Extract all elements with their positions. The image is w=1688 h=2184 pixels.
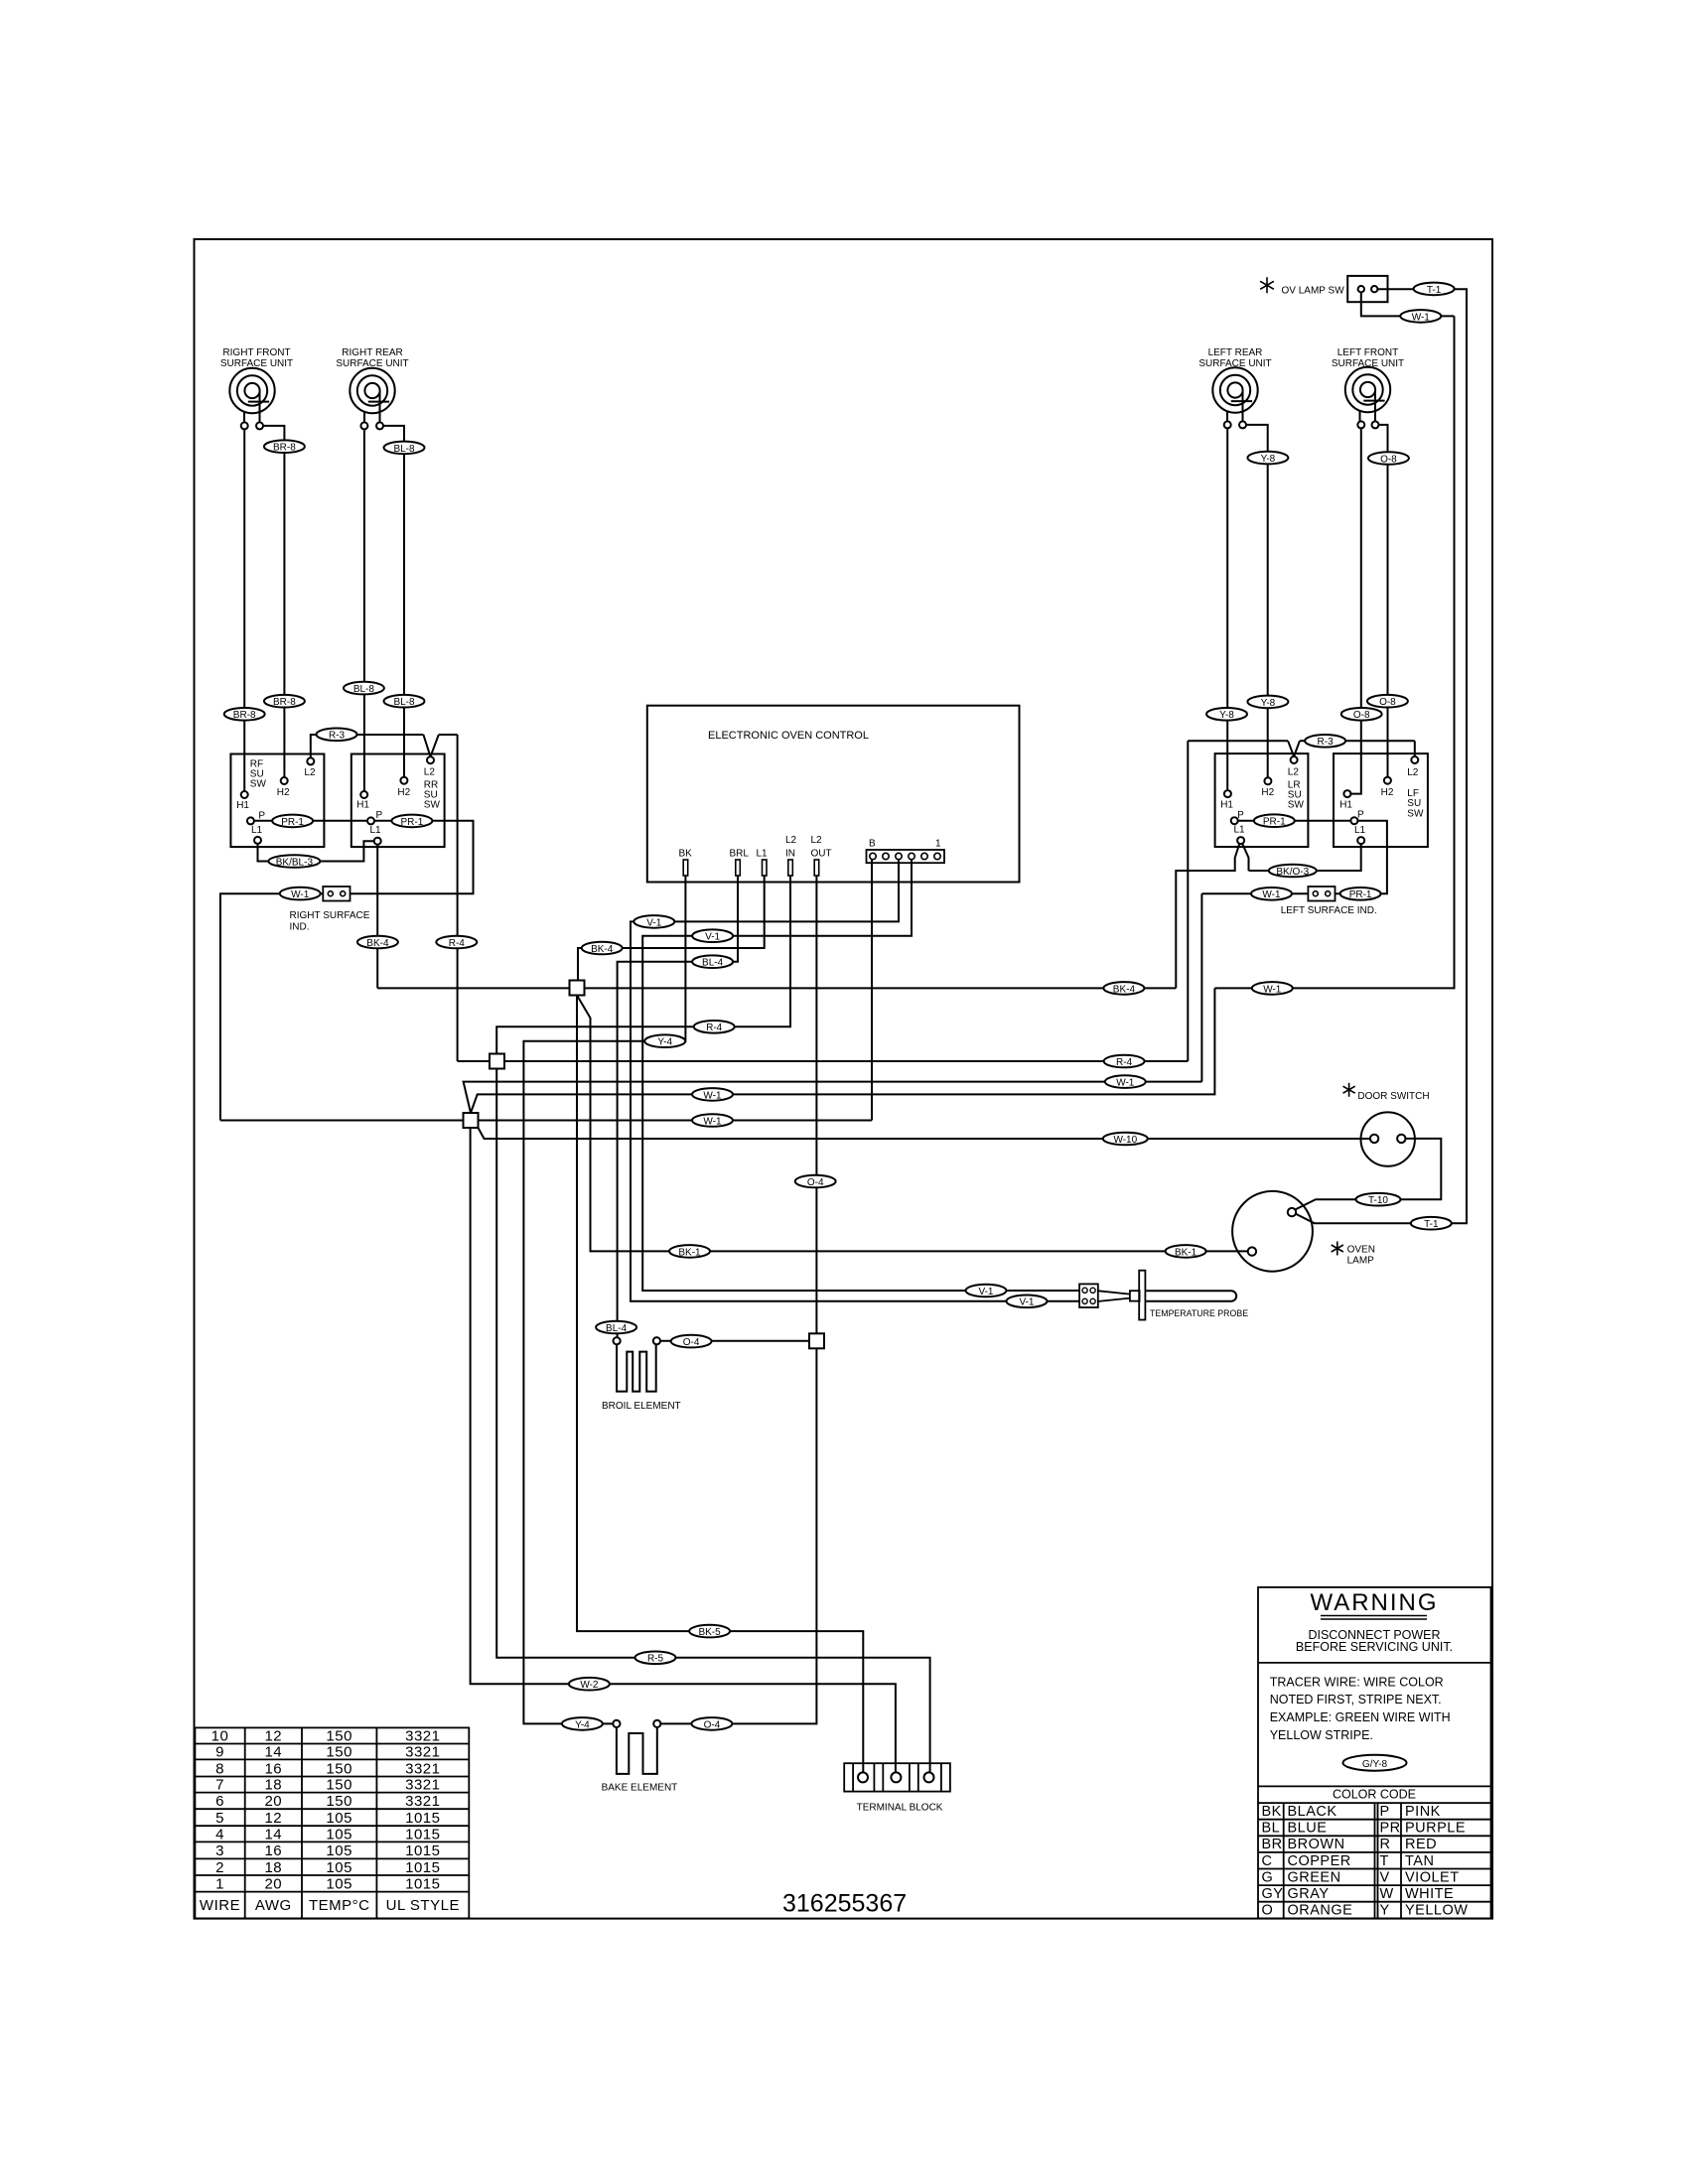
svg-text:H2: H2 xyxy=(1261,787,1274,798)
label BK-4 on RR L1 drop xyxy=(357,936,398,949)
svg-text:SURFACE UNIT: SURFACE UNIT xyxy=(1198,358,1271,369)
svg-text:20: 20 xyxy=(264,1876,282,1893)
svg-text:H1: H1 xyxy=(1339,800,1352,811)
terminal RR H2 xyxy=(400,777,407,784)
wire BK-5 to terminal block xyxy=(577,996,863,1773)
svg-text:COLOR CODE: COLOR CODE xyxy=(1333,1788,1416,1802)
label O-8 on LF H2 lower xyxy=(1367,695,1408,708)
svg-text:L2: L2 xyxy=(811,835,823,846)
svg-text:W-1: W-1 xyxy=(1116,1078,1135,1089)
svg-text:3321: 3321 xyxy=(405,1728,440,1745)
svg-text:T-1: T-1 xyxy=(1424,1219,1439,1230)
label V-1 lower xyxy=(692,929,733,942)
terminal RF P xyxy=(247,817,254,824)
svg-text:H1: H1 xyxy=(1220,800,1233,811)
label W-1 left indicator xyxy=(1251,887,1292,900)
svg-text:WHITE: WHITE xyxy=(1405,1886,1454,1902)
wire LF H1 drop with jog xyxy=(1350,428,1360,793)
svg-text:8: 8 xyxy=(215,1761,224,1778)
svg-text:W-10: W-10 xyxy=(1113,1135,1137,1146)
junction square 3 xyxy=(464,1113,479,1128)
svg-text:BL-8: BL-8 xyxy=(393,444,415,455)
terminal RR L1 xyxy=(374,838,381,845)
svg-text:V: V xyxy=(1380,1869,1390,1885)
label R-3 right xyxy=(1305,735,1345,748)
svg-text:P: P xyxy=(1380,1804,1390,1820)
label W-1 left ind row xyxy=(1105,1075,1146,1088)
label PR-1 in RF box xyxy=(272,815,313,828)
label BR-8 on RF H2 xyxy=(264,440,305,453)
svg-text:OUT: OUT xyxy=(811,849,832,860)
svg-text:TRACER WIRE: WIRE COLOR: TRACER WIRE: WIRE COLOR xyxy=(1270,1676,1444,1690)
terminal LF P xyxy=(1350,817,1357,824)
svg-text:BL-4: BL-4 xyxy=(606,1323,628,1334)
label W-1 long wire xyxy=(1252,982,1293,995)
svg-text:BL: BL xyxy=(1262,1821,1281,1837)
svg-text:NOTED FIRST, STRIPE NEXT.: NOTED FIRST, STRIPE NEXT. xyxy=(1270,1693,1442,1706)
svg-text:BK-1: BK-1 xyxy=(678,1247,701,1258)
svg-text:PINK: PINK xyxy=(1405,1804,1441,1820)
svg-text:BL-8: BL-8 xyxy=(393,697,415,708)
label O-4 on L2 OUT drop xyxy=(795,1175,836,1188)
probe block circles xyxy=(1082,1288,1095,1303)
terminal LR right xyxy=(1239,421,1246,428)
wire BRL pin BL-4 xyxy=(618,876,738,1337)
connector block B-1 xyxy=(867,850,945,863)
svg-text:TERMINAL BLOCK: TERMINAL BLOCK xyxy=(857,1803,943,1814)
svg-text:R-5: R-5 xyxy=(647,1654,664,1665)
pin L2 OUT xyxy=(814,860,819,876)
svg-text:VIOLET: VIOLET xyxy=(1405,1869,1460,1885)
terminal LR L1 xyxy=(1237,837,1244,844)
label BL-8 on RR H2 xyxy=(384,442,425,455)
label Y-4 bake xyxy=(562,1717,603,1730)
svg-text:R: R xyxy=(1380,1837,1391,1852)
svg-text:L2: L2 xyxy=(304,767,316,778)
warning underline xyxy=(1321,1616,1427,1620)
wire V into LR L2 xyxy=(1288,741,1300,756)
svg-text:G/Y-8: G/Y-8 xyxy=(1362,1759,1388,1770)
svg-text:Y-8: Y-8 xyxy=(1261,698,1276,709)
svg-text:Y-8: Y-8 xyxy=(1219,710,1234,721)
switch box RR SU SW xyxy=(352,754,445,848)
svg-text:RIGHT SURFACE: RIGHT SURFACE xyxy=(290,910,370,921)
electronic oven control box xyxy=(647,706,1020,883)
svg-text:LAMP: LAMP xyxy=(1347,1256,1375,1267)
label O-8 on LF H2 xyxy=(1368,452,1409,465)
svg-text:BLUE: BLUE xyxy=(1288,1821,1328,1837)
asterisk ov lamp sw xyxy=(1260,277,1274,293)
terminal RR left xyxy=(360,422,367,429)
svg-text:GREEN: GREEN xyxy=(1288,1869,1341,1885)
svg-text:1: 1 xyxy=(935,839,941,850)
svg-text:10: 10 xyxy=(211,1728,229,1745)
wire R-5 to terminal block xyxy=(496,1069,929,1773)
terminal RF H2 xyxy=(281,777,288,784)
wire BK/BL-3 link RF L1 to RR L1 xyxy=(258,841,374,861)
terminal LR P xyxy=(1231,817,1238,824)
label Y-8 on LR H2 lower xyxy=(1247,696,1288,709)
svg-text:T-10: T-10 xyxy=(1368,1195,1388,1206)
svg-text:105: 105 xyxy=(326,1876,352,1893)
oven lamp terminal upper xyxy=(1288,1208,1296,1216)
oven lamp switch terminals xyxy=(1358,286,1364,292)
svg-text:PR-1: PR-1 xyxy=(281,817,304,828)
wire RF H1 drop xyxy=(243,429,245,791)
pin BK xyxy=(683,860,688,876)
svg-text:6: 6 xyxy=(215,1793,224,1810)
label T-1 lamp xyxy=(1411,1217,1452,1230)
svg-text:BL-4: BL-4 xyxy=(702,958,724,969)
svg-text:PR-1: PR-1 xyxy=(1263,817,1286,828)
svg-text:SW: SW xyxy=(1407,809,1424,820)
wire W-10 to door switch xyxy=(479,1128,1370,1139)
svg-text:150: 150 xyxy=(326,1761,352,1778)
svg-text:1015: 1015 xyxy=(405,1876,440,1893)
wire LR H2 elbow drop xyxy=(1246,425,1268,777)
label W-1 top xyxy=(1400,310,1441,323)
svg-text:1015: 1015 xyxy=(405,1859,440,1876)
svg-text:SURFACE UNIT: SURFACE UNIT xyxy=(220,358,293,369)
terminal RR H1 xyxy=(360,791,367,798)
svg-text:DOOR SWITCH: DOOR SWITCH xyxy=(1357,1091,1429,1102)
wire LF H2 elbow drop xyxy=(1375,425,1388,777)
asterisk oven lamp xyxy=(1332,1242,1343,1256)
svg-text:Y-4: Y-4 xyxy=(657,1037,672,1048)
svg-text:18: 18 xyxy=(264,1777,282,1794)
terminal LF L2 xyxy=(1411,756,1418,763)
svg-text:14: 14 xyxy=(264,1827,282,1843)
svg-text:4: 4 xyxy=(215,1827,224,1843)
svg-text:PR-1: PR-1 xyxy=(401,817,424,828)
wire BK-4 riser to LR L1 xyxy=(1176,844,1248,989)
svg-text:SW: SW xyxy=(424,799,441,810)
wire R-4 riser right xyxy=(1187,741,1189,1061)
svg-text:14: 14 xyxy=(264,1744,282,1761)
terminal LR L2 xyxy=(1291,756,1298,763)
svg-text:V-1: V-1 xyxy=(978,1287,993,1297)
bake terminals xyxy=(613,1720,620,1727)
svg-text:UL STYLE: UL STYLE xyxy=(386,1897,460,1914)
wire LR H1 drop xyxy=(1226,428,1228,790)
svg-text:150: 150 xyxy=(326,1744,352,1761)
svg-text:150: 150 xyxy=(326,1793,352,1810)
label R-4 on L2 IN run xyxy=(694,1021,735,1033)
svg-text:BK: BK xyxy=(679,849,693,860)
svg-text:1015: 1015 xyxy=(405,1843,440,1859)
terminal RF L2 xyxy=(307,757,314,764)
svg-text:B: B xyxy=(869,839,876,850)
label Y-8 on LR H1 lower xyxy=(1206,708,1247,721)
label BR-8 on RF H1 lower xyxy=(224,708,265,721)
svg-text:AWG: AWG xyxy=(255,1897,292,1914)
svg-text:O-8: O-8 xyxy=(1353,710,1370,721)
svg-text:W-1: W-1 xyxy=(1263,984,1282,995)
svg-text:18: 18 xyxy=(264,1859,282,1876)
svg-text:P: P xyxy=(376,810,383,821)
terminal LF right xyxy=(1372,421,1379,428)
door switch circle xyxy=(1361,1112,1415,1165)
right surface indicator box xyxy=(323,887,350,901)
label W-1 lamp switch row xyxy=(692,1088,733,1101)
terminal RF left xyxy=(241,422,248,429)
wire BK/O-3 link to LF L1 xyxy=(1249,844,1361,871)
svg-text:Y: Y xyxy=(1380,1903,1390,1919)
label Y-4 on bake run xyxy=(644,1034,685,1047)
oven lamp switch box xyxy=(1347,276,1387,302)
wire BK-4 main horizontal xyxy=(377,987,1176,989)
svg-text:W-1: W-1 xyxy=(291,889,310,900)
svg-text:OVEN: OVEN xyxy=(1347,1245,1375,1256)
svg-text:T: T xyxy=(1380,1853,1389,1869)
svg-text:BR-8: BR-8 xyxy=(273,443,296,454)
terminal LF left xyxy=(1357,421,1364,428)
wire R-4 junction row xyxy=(458,1060,1189,1062)
svg-text:ORANGE: ORANGE xyxy=(1288,1903,1353,1919)
terminal RF L1 xyxy=(254,837,261,844)
svg-text:16: 16 xyxy=(264,1761,282,1778)
svg-text:BK: BK xyxy=(1262,1804,1282,1820)
svg-text:W: W xyxy=(1380,1886,1394,1902)
svg-text:R-3: R-3 xyxy=(329,731,346,742)
svg-text:H2: H2 xyxy=(277,787,290,798)
wire T-10 net xyxy=(1294,1139,1441,1210)
label BL-4 near EOC xyxy=(692,955,733,968)
svg-text:W-1: W-1 xyxy=(1412,312,1431,323)
svg-text:WIRE: WIRE xyxy=(200,1897,240,1914)
svg-text:105: 105 xyxy=(326,1859,352,1876)
terminal RR L2 xyxy=(427,756,434,763)
label BK/BL-3 xyxy=(268,855,320,868)
svg-text:105: 105 xyxy=(326,1810,352,1827)
svg-text:IND.: IND. xyxy=(290,922,310,933)
wire R-4 L2 IN drop xyxy=(496,876,790,1054)
wire W-1 right indicator to junction xyxy=(220,893,323,1120)
svg-text:7: 7 xyxy=(215,1777,224,1794)
svg-text:SURFACE UNIT: SURFACE UNIT xyxy=(336,358,408,369)
terminal RF H1 xyxy=(241,791,248,798)
connector pin circles xyxy=(870,853,940,859)
wire R-4 riser RR xyxy=(457,735,459,1061)
svg-text:BL-8: BL-8 xyxy=(353,684,375,695)
svg-text:TEMP°C: TEMP°C xyxy=(309,1897,370,1914)
svg-text:L1: L1 xyxy=(370,825,382,836)
switch box LF SU SW xyxy=(1334,753,1428,847)
switch box RF SU SW xyxy=(230,754,324,848)
svg-text:IN: IN xyxy=(785,849,795,860)
label O-8 on LF H1 lower xyxy=(1341,708,1382,721)
svg-text:EXAMPLE: GREEN WIRE WITH: EXAMPLE: GREEN WIRE WITH xyxy=(1270,1710,1451,1724)
drawing border frame xyxy=(195,239,1493,1919)
label Y-8 on LR H2 xyxy=(1247,452,1288,465)
svg-text:3321: 3321 xyxy=(405,1793,440,1810)
svg-text:V-1: V-1 xyxy=(646,917,661,928)
svg-text:L1: L1 xyxy=(1234,825,1246,836)
svg-text:3321: 3321 xyxy=(405,1777,440,1794)
broil element xyxy=(617,1345,656,1392)
svg-text:316255367: 316255367 xyxy=(782,1890,907,1918)
svg-text:P: P xyxy=(1357,810,1364,821)
svg-text:L2: L2 xyxy=(424,767,436,778)
label PR-1 at left indicator xyxy=(1340,887,1381,900)
terminal LF L1 xyxy=(1357,837,1364,844)
wire P/PR-1 run right pair xyxy=(254,821,474,893)
door switch terminals xyxy=(1370,1135,1378,1143)
left indicator bulbs xyxy=(1313,891,1330,896)
svg-text:BK-4: BK-4 xyxy=(591,944,614,955)
wire RR L1 drop xyxy=(376,845,378,989)
svg-text:RED: RED xyxy=(1405,1837,1437,1852)
terminal LF H1 xyxy=(1343,790,1350,797)
terminal block xyxy=(844,1763,950,1791)
label R-4 on RR L2 riser xyxy=(436,936,477,949)
svg-text:SW: SW xyxy=(250,779,267,790)
label BK-4 long wire xyxy=(1103,982,1144,995)
svg-text:L1: L1 xyxy=(1354,825,1366,836)
wire R-3 right horizontal xyxy=(1188,740,1415,742)
label BK-5 xyxy=(689,1625,730,1638)
label BL-8 on RR H1 lower xyxy=(344,682,384,695)
wire RF H2 elbow drop xyxy=(263,426,284,777)
wire P/PR-1 run left pair xyxy=(1238,821,1387,894)
label G/Y-8 example oval xyxy=(1343,1755,1407,1771)
svg-text:W-1: W-1 xyxy=(703,1116,722,1127)
svg-text:BLACK: BLACK xyxy=(1288,1804,1337,1820)
svg-text:L2: L2 xyxy=(1407,767,1419,778)
bake element xyxy=(617,1727,657,1774)
wire V into RR L2 xyxy=(423,735,457,756)
wire T-1 net xyxy=(1295,289,1468,1223)
svg-text:1015: 1015 xyxy=(405,1827,440,1843)
svg-text:BK/O-3: BK/O-3 xyxy=(1276,867,1309,878)
svg-text:L1: L1 xyxy=(757,849,769,860)
svg-text:20: 20 xyxy=(264,1793,282,1810)
svg-text:12: 12 xyxy=(264,1810,282,1827)
terminal LR H1 xyxy=(1224,790,1231,797)
label PR-1 in RR box xyxy=(391,815,432,828)
svg-text:LEFT FRONT: LEFT FRONT xyxy=(1337,347,1398,358)
label BK/O-3 xyxy=(1269,865,1317,878)
svg-text:BK/BL-3: BK/BL-3 xyxy=(276,857,314,868)
svg-text:150: 150 xyxy=(326,1728,352,1745)
surface unit coil RR xyxy=(350,368,394,423)
svg-text:V-1: V-1 xyxy=(705,932,720,943)
svg-text:12: 12 xyxy=(264,1728,282,1745)
label W-1 connector row xyxy=(692,1114,733,1127)
pin L2 IN xyxy=(788,860,793,876)
svg-text:O-4: O-4 xyxy=(807,1177,824,1188)
wire RR H2 elbow drop xyxy=(383,426,404,777)
wire V-1 probe upper xyxy=(631,860,1079,1301)
label BK-1 left xyxy=(669,1245,710,1258)
svg-text:BEFORE SERVICING UNIT.: BEFORE SERVICING UNIT. xyxy=(1296,1640,1453,1654)
svg-text:BROWN: BROWN xyxy=(1288,1837,1345,1852)
terminal RF right xyxy=(256,422,263,429)
wire RR H1 drop xyxy=(363,429,365,791)
wire BK-1 to oven lamp xyxy=(577,996,1248,1252)
svg-text:C: C xyxy=(1262,1853,1273,1869)
svg-text:OV LAMP SW: OV LAMP SW xyxy=(1282,285,1345,296)
surface unit coil LF xyxy=(1345,367,1390,423)
svg-text:Y-8: Y-8 xyxy=(1261,454,1276,465)
surface unit coil RF xyxy=(229,368,274,423)
svg-text:BRL: BRL xyxy=(730,849,750,860)
junction square O-4 xyxy=(809,1333,824,1348)
svg-text:T-1: T-1 xyxy=(1427,285,1442,296)
label W-1 right indicator xyxy=(280,887,321,900)
wire O-4 to broil element xyxy=(660,1340,809,1342)
wire W-2 to terminal block xyxy=(471,1128,896,1772)
svg-text:R-3: R-3 xyxy=(1318,737,1335,748)
svg-text:SU: SU xyxy=(1407,798,1421,809)
temperature probe connector block xyxy=(1079,1284,1098,1307)
svg-text:L2: L2 xyxy=(1288,767,1300,778)
svg-text:PR-1: PR-1 xyxy=(1349,889,1372,900)
svg-text:5: 5 xyxy=(215,1810,224,1827)
probe body xyxy=(1145,1291,1236,1300)
switch box LR SU SW xyxy=(1215,753,1309,847)
svg-text:BR-8: BR-8 xyxy=(273,697,296,708)
label T-10 xyxy=(1356,1193,1401,1206)
label BL-8 on RR H2 lower xyxy=(384,695,425,708)
wire BAKE pin Y-4 xyxy=(523,876,685,1723)
svg-text:Y-4: Y-4 xyxy=(575,1719,590,1730)
svg-text:BK-1: BK-1 xyxy=(1175,1247,1197,1258)
svg-text:BK-5: BK-5 xyxy=(698,1627,721,1638)
wire gauge table grid xyxy=(195,1727,469,1918)
svg-text:COPPER: COPPER xyxy=(1288,1853,1351,1869)
svg-text:O-4: O-4 xyxy=(683,1337,700,1348)
label BK-1 right xyxy=(1166,1245,1206,1258)
svg-text:GY: GY xyxy=(1262,1886,1284,1902)
surface unit coil LR xyxy=(1212,367,1257,422)
svg-text:H2: H2 xyxy=(397,787,410,798)
svg-text:O-4: O-4 xyxy=(704,1719,721,1730)
pin BRL xyxy=(736,860,741,876)
svg-text:W-2: W-2 xyxy=(580,1680,599,1691)
svg-text:G: G xyxy=(1262,1869,1274,1885)
wire R-3 net left: RF L2 riser xyxy=(311,735,424,757)
svg-text:BK-4: BK-4 xyxy=(1113,984,1136,995)
label R-3 left xyxy=(317,729,357,742)
svg-text:P: P xyxy=(1237,810,1244,821)
probe crossbar xyxy=(1139,1271,1145,1320)
probe taper lines xyxy=(1098,1291,1130,1301)
svg-text:YELLOW: YELLOW xyxy=(1405,1903,1468,1919)
svg-text:105: 105 xyxy=(326,1827,352,1843)
svg-text:L1: L1 xyxy=(251,825,263,836)
wire W-1 left-ind horizontal to junction 3 xyxy=(464,1082,1202,1113)
pin L1 xyxy=(763,860,768,876)
svg-text:O: O xyxy=(1262,1903,1274,1919)
svg-text:3321: 3321 xyxy=(405,1761,440,1778)
label O-4 broil xyxy=(671,1335,712,1348)
svg-text:2: 2 xyxy=(215,1859,224,1876)
svg-text:GRAY: GRAY xyxy=(1288,1886,1330,1902)
svg-text:W-1: W-1 xyxy=(1262,889,1281,900)
svg-text:9: 9 xyxy=(215,1744,224,1761)
terminal block circles xyxy=(858,1772,868,1782)
label V-1 probe lower xyxy=(1007,1296,1048,1308)
svg-text:RIGHT REAR: RIGHT REAR xyxy=(342,347,403,358)
wire gauge table text xyxy=(200,1728,460,1915)
svg-text:SW: SW xyxy=(1288,799,1305,810)
svg-text:O-8: O-8 xyxy=(1379,697,1396,708)
svg-text:BAKE ELEMENT: BAKE ELEMENT xyxy=(602,1783,678,1794)
svg-text:H1: H1 xyxy=(236,800,249,811)
label W-2 xyxy=(569,1678,610,1691)
svg-text:O-8: O-8 xyxy=(1380,454,1397,465)
